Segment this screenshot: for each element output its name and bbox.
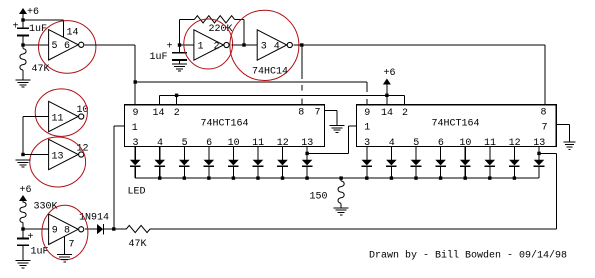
inverter U1 pins 9/8 (74HC14) xyxy=(49,214,84,244)
shift register U2 74HCT164 (box) xyxy=(125,105,325,147)
ground (below C3) xyxy=(16,261,31,268)
wire node C to inverter pin 1 xyxy=(180,44,194,46)
svg-text:220K: 220K xyxy=(209,24,233,35)
junction LED rail at U2 pin 6 xyxy=(207,176,210,179)
pin 7 stub of 74HC14 (GND) xyxy=(65,237,75,255)
wire feedback loop left xyxy=(180,19,195,45)
label 74HC14 xyxy=(252,67,288,78)
wire feedback loop right xyxy=(235,19,245,45)
svg-text:1uF: 1uF xyxy=(150,52,168,63)
pin 7 label U3 xyxy=(542,123,548,134)
pin 10 label U3 xyxy=(459,138,471,149)
svg-text:4: 4 xyxy=(274,42,280,53)
svg-text:11: 11 xyxy=(52,113,64,124)
red circle around inverter pins 13/12 xyxy=(30,137,86,187)
svg-text:6: 6 xyxy=(64,41,70,52)
pin 14 label U2 xyxy=(153,108,165,119)
svg-text:74HCT164: 74HCT164 xyxy=(201,118,249,129)
pin 1 label U2 xyxy=(132,123,138,134)
junction LED rail at U3 pin 6 xyxy=(439,176,442,179)
capacitor C2 1uF (oscillator) xyxy=(150,42,187,64)
svg-text:13: 13 xyxy=(52,151,64,162)
pin 14 label U3 xyxy=(381,108,393,119)
svg-text:74HCT164: 74HCT164 xyxy=(432,118,480,129)
svg-text:3: 3 xyxy=(261,42,267,53)
svg-text:+6: +6 xyxy=(27,7,39,18)
svg-text:1uF: 1uF xyxy=(29,24,47,35)
wire clock drop to U2 pin 8 (with crossover gaps) xyxy=(301,45,303,105)
node F junction (clear rail branch) xyxy=(134,80,137,83)
node M junction (U1 pin 9 node) xyxy=(21,227,24,230)
inverter U1 pins 1/2 (74HC14 oscillator) xyxy=(194,30,229,60)
LED on U3 pin 12 xyxy=(509,147,520,179)
LED on U2 pin 4 xyxy=(154,147,165,179)
pin 7 label U2 xyxy=(315,108,321,119)
pin 4 label U3 xyxy=(389,138,395,149)
wire clock line to both shift registers xyxy=(293,44,545,46)
junction LED rail at U3 pin 10 xyxy=(464,176,467,179)
junction LED rail at U3 pin 11 xyxy=(488,176,491,179)
node L junction (bottom feedback node) xyxy=(112,227,115,230)
junction LED rail at U2 pin 10 xyxy=(232,176,235,179)
junction LED rail at U3 pin 3 xyxy=(365,176,368,179)
inverter U1 pins 13/12 (74HC14 unused) xyxy=(49,139,89,169)
resistor 47K (feedback, bottom) xyxy=(126,225,150,250)
red circle around inverter pins 9/8 xyxy=(42,205,88,260)
pin 1 label U3 xyxy=(364,122,370,133)
pin 11 label U3 xyxy=(484,138,496,149)
wire clock drop to U3 pin 8 xyxy=(544,45,546,105)
pin 8 label U3 xyxy=(541,108,547,119)
wire inverter 2 output to pin 3 xyxy=(232,44,258,46)
svg-text:2: 2 xyxy=(214,42,220,53)
svg-text:Drawn by - Bill Bowden - 09/14: Drawn by - Bill Bowden - 09/14/98 xyxy=(369,249,567,261)
LED on U3 pin 11 xyxy=(485,147,496,179)
ground (below 150) xyxy=(334,208,349,215)
red circle around inverter pins 1/2 xyxy=(184,19,233,69)
svg-text:330K: 330K xyxy=(34,202,58,213)
LED on U3 pin 3 xyxy=(362,147,373,179)
svg-text:9: 9 xyxy=(364,108,370,119)
pin 5 label U3 xyxy=(413,138,419,149)
pin 5 label U2 xyxy=(182,138,188,149)
wire feedback U3 pin 13 down to bottom rail xyxy=(150,153,556,229)
svg-text:8: 8 xyxy=(64,226,70,237)
caption text xyxy=(369,249,567,261)
svg-text:5: 5 xyxy=(52,41,58,52)
pin 6 label U3 xyxy=(438,138,444,149)
pin 2 label U3 xyxy=(402,108,408,119)
junction LED rail at U2 pin 11 xyxy=(256,176,259,179)
pin 8 label U2 xyxy=(298,108,304,119)
LED on U2 pin 12 xyxy=(277,147,288,179)
wire U2 pin 7 to ground xyxy=(325,111,338,126)
node E junction (clock branch) xyxy=(300,43,303,46)
pin 2 label U2 xyxy=(174,108,180,119)
resistor 150 (LED current limit) xyxy=(310,178,345,208)
junction LED rail at U3 pin 5 xyxy=(414,176,417,179)
inverter U1 pins 11/10 (74HC14 unused) xyxy=(49,101,89,131)
pin 14 stub of 74HC14 (Vcc) xyxy=(63,20,78,39)
junction LED rail at U3 pin 4 xyxy=(390,176,393,179)
ground (unused inverter inputs) xyxy=(16,160,31,167)
node D junction (feedback tap) xyxy=(242,43,245,46)
svg-text:+: + xyxy=(167,42,173,53)
LED on U2 pin 13 xyxy=(302,147,313,179)
red circle around inverter pins 3/4 xyxy=(230,10,299,80)
junction LED rail at U2 pin 12 xyxy=(281,176,284,179)
junction LED rail at U2 pin 4 xyxy=(158,176,161,179)
svg-text:1: 1 xyxy=(364,122,370,133)
ground (U3 pin 7) xyxy=(564,142,576,149)
resistor 47K (top left) xyxy=(20,45,50,80)
svg-text:9: 9 xyxy=(52,226,58,237)
node G junction (U2 pin 2) xyxy=(175,94,178,97)
wire U2 pin 1 serial input xyxy=(114,126,125,229)
LED on U3 pin 10 xyxy=(460,147,471,179)
svg-text:74HC14: 74HC14 xyxy=(252,67,288,78)
wire LED cathode rail xyxy=(135,177,539,179)
wire cascade U2 pin 13 to U3 pin 1 xyxy=(307,126,357,153)
svg-text:47K: 47K xyxy=(129,239,147,250)
red circle around inverter pins 11/10 xyxy=(35,89,87,137)
svg-text:+6: +6 xyxy=(20,185,32,196)
ground (U2 pin 7) xyxy=(330,125,345,132)
pin 9 label U3 xyxy=(364,108,370,119)
wire U3 pin 7 to ground xyxy=(556,125,569,143)
svg-text:7: 7 xyxy=(315,108,321,119)
LED on U2 pin 6 xyxy=(204,147,215,179)
LED on U2 pin 10 xyxy=(228,147,239,179)
node I junction (U2 pin 13 cascade) xyxy=(305,152,308,155)
power +6 supply (bottom left) xyxy=(19,185,32,203)
label U2 74HCT164 xyxy=(201,118,249,129)
pin 11 label U2 xyxy=(252,138,264,149)
pin 3 label U2 xyxy=(133,138,139,149)
svg-text:14: 14 xyxy=(153,108,165,119)
power +6 supply (top left) xyxy=(19,7,39,20)
pin 9 label U2 xyxy=(133,108,139,119)
svg-text:47K: 47K xyxy=(32,64,50,75)
capacitor C3 1uF (bottom left) xyxy=(17,229,48,261)
pin 4 label U2 xyxy=(157,138,163,149)
wire +6 rail to pin 14 xyxy=(23,19,63,21)
node H junction (+6 on Vcc rail) xyxy=(385,94,388,97)
pin 10 label U2 xyxy=(228,138,240,149)
pin 6 label U2 xyxy=(206,138,212,149)
ground (74HC14 pin 7) xyxy=(57,255,72,262)
inverter U1 pins 5/6 (74HC14 power-on reset) xyxy=(49,30,84,60)
shift register U3 74HCT164 (box) xyxy=(356,105,556,147)
svg-text:7: 7 xyxy=(69,239,75,250)
capacitor C1 1uF (top left) xyxy=(13,20,48,45)
LED on U2 pin 3 xyxy=(130,147,141,179)
node B junction (pin 5 input node) xyxy=(21,43,24,46)
svg-text:1N914: 1N914 xyxy=(79,212,109,223)
wire clear rail to U3 pin 9 (with crossover gap) xyxy=(135,82,367,105)
svg-text:14: 14 xyxy=(67,28,79,39)
svg-text:LED: LED xyxy=(128,186,146,197)
pin 12 label U2 xyxy=(277,138,289,149)
svg-text:2: 2 xyxy=(174,108,180,119)
node C junction (oscillator input) xyxy=(178,43,181,46)
power +6 supply (above U3 pin 14) xyxy=(383,68,396,96)
svg-text:+6: +6 xyxy=(384,68,396,79)
junction LED rail at U2 pin 13 xyxy=(305,176,308,179)
svg-text:8: 8 xyxy=(541,108,547,119)
svg-text:9: 9 xyxy=(133,108,139,119)
svg-text:8: 8 xyxy=(298,108,304,119)
svg-text:+: + xyxy=(28,232,34,243)
wire U3 pin 14 stub xyxy=(386,95,388,105)
diode 1N914 xyxy=(79,212,126,234)
wire node B to inverter pin 5 xyxy=(23,44,49,46)
resistor 330K xyxy=(20,202,58,230)
svg-text:150: 150 xyxy=(310,191,328,202)
node K junction (U3 pin 13 feedback) xyxy=(537,152,540,155)
LED on U3 pin 5 xyxy=(411,147,422,179)
inverter U1 pins 3/4 (74HC14 buffer) xyxy=(257,30,292,60)
wire node M to inverter pin 9 xyxy=(23,228,49,230)
node N junction (grounded inputs) xyxy=(21,153,24,156)
pin 12 label U3 xyxy=(509,138,521,149)
svg-text:7: 7 xyxy=(542,123,548,134)
svg-text:+: + xyxy=(13,22,19,33)
wire inverter 6 output to clear rail xyxy=(84,45,135,105)
svg-text:2: 2 xyxy=(402,108,408,119)
wire Vcc rail U2 pin 14 / pin 2 to U3 pin 2 xyxy=(160,95,405,105)
svg-text:1: 1 xyxy=(198,42,204,53)
label U3 74HCT164 xyxy=(432,118,480,129)
ground (below 47K top left) xyxy=(16,80,31,87)
LED on U3 pin 13 xyxy=(534,147,545,179)
pin 13 label U3 xyxy=(533,138,545,149)
wire unused inverter inputs to ground xyxy=(23,117,49,155)
ground (below C2) xyxy=(172,64,187,71)
LED on U2 pin 5 xyxy=(179,147,190,179)
LED on U3 pin 4 xyxy=(386,147,397,179)
node A junction (top-left +6 rail) xyxy=(21,18,24,21)
pin 3 label U3 xyxy=(364,138,370,149)
label LED xyxy=(128,186,146,197)
svg-text:1: 1 xyxy=(132,123,138,134)
LED on U3 pin 6 xyxy=(435,147,446,179)
LED on U2 pin 11 xyxy=(253,147,264,179)
junction LED rail at U2 pin 5 xyxy=(183,176,186,179)
pin 13 label U2 xyxy=(301,138,313,149)
red circle around inverter pins 5/6 xyxy=(38,21,95,74)
node J junction (150 ohm tap) xyxy=(339,176,342,179)
svg-text:14: 14 xyxy=(381,108,393,119)
resistor 220K (oscillator feedback) xyxy=(195,16,235,35)
junction LED rail at U3 pin 12 xyxy=(513,176,516,179)
